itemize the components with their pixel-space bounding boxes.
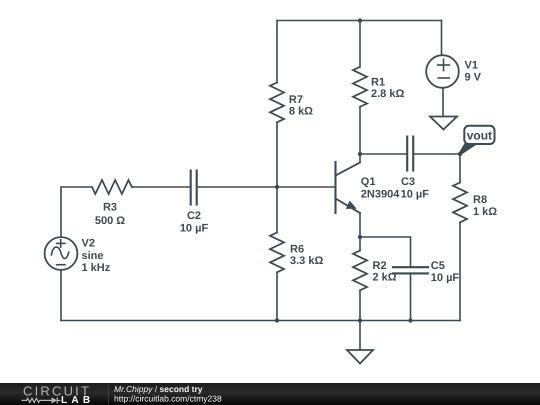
V1 value label — [465, 60, 482, 84]
ground at bottom center — [347, 350, 373, 364]
wire V2 bottom lead — [60, 270, 62, 321]
wire top rail from R7 top to V1 top — [277, 20, 442, 22]
Q1 value label — [361, 176, 400, 201]
svg-text:http://circuitlab.com/ctmy238: http://circuitlab.com/ctmy238 — [114, 393, 222, 403]
svg-text:8 kΩ: 8 kΩ — [289, 106, 313, 118]
junction dot bottom rail / C5 — [408, 318, 412, 322]
V2 value label — [82, 237, 111, 274]
resistor R6 top lead — [276, 187, 278, 233]
svg-text:R6: R6 — [290, 244, 304, 256]
resistor R7 — [270, 83, 284, 123]
svg-text:2 kΩ: 2 kΩ — [373, 272, 397, 284]
wire bottom rail — [61, 320, 460, 322]
node flag vout — [459, 126, 495, 156]
svg-text:2N3904: 2N3904 — [361, 189, 400, 201]
wire R2 bottom lead — [359, 290, 361, 320]
wire R3 to C2 — [132, 186, 191, 188]
svg-text:10 µF: 10 µF — [180, 222, 209, 234]
svg-text:1 kHz: 1 kHz — [82, 262, 111, 274]
svg-text:V2: V2 — [82, 237, 95, 249]
svg-text:sine: sine — [82, 250, 104, 262]
svg-text:2.8 kΩ: 2.8 kΩ — [371, 88, 404, 100]
junction dot bottom rail / ground — [358, 318, 362, 322]
svg-text:C5: C5 — [431, 260, 445, 272]
svg-text:R7: R7 — [289, 94, 303, 106]
svg-text:R3: R3 — [103, 202, 117, 214]
junction dot top rail / R1 — [358, 18, 362, 22]
R3 value label — [95, 202, 125, 227]
wire ground stem bottom — [359, 321, 361, 351]
wire Q1 collector lead — [359, 154, 361, 163]
svg-text:10 µF: 10 µF — [401, 189, 430, 201]
footer bar — [0, 383, 540, 405]
wire C2 to base (through node B) — [197, 186, 336, 188]
svg-text:Mr.Chippy / second try: Mr.Chippy / second try — [114, 384, 203, 394]
R7 value label — [289, 94, 313, 118]
svg-text:R1: R1 — [371, 77, 385, 89]
wire C3 to vout node — [413, 153, 460, 155]
wire Q1 emitter lead — [359, 213, 361, 237]
C3 value label — [401, 176, 430, 201]
resistor R2 — [353, 251, 367, 291]
svg-text:3.3 kΩ: 3.3 kΩ — [290, 255, 323, 267]
transistor Q1 — [336, 162, 361, 213]
junction dot node B (divider / base) — [275, 185, 279, 189]
svg-text:1 kΩ: 1 kΩ — [473, 206, 497, 218]
wire R6 bottom lead — [276, 272, 278, 320]
R2 value label — [373, 260, 397, 284]
capacitor C2 — [191, 171, 197, 205]
wire R7 bottom lead to node B — [276, 122, 278, 187]
R1 value label — [371, 77, 404, 100]
wire R7 top lead — [276, 21, 278, 83]
wire collector node to C3 — [360, 153, 407, 155]
svg-text:500 Ω: 500 Ω — [95, 215, 125, 227]
svg-text:V1: V1 — [465, 60, 478, 72]
C2 value label — [180, 210, 209, 234]
ground under V1 — [430, 117, 457, 130]
svg-text:C3: C3 — [401, 176, 415, 188]
wire R1 bottom lead to collector node — [359, 107, 361, 154]
wire R1 top lead — [359, 21, 361, 67]
svg-text:9 V: 9 V — [465, 72, 482, 84]
wire C5 bottom lead — [410, 273, 412, 320]
footer separator line — [108, 384, 110, 404]
svg-text:R8: R8 — [473, 194, 487, 206]
junction dot emitter / R2 / C5 — [358, 235, 362, 239]
junction dot collector / C3 — [358, 152, 362, 156]
logo resistor zigzag and diode — [22, 397, 61, 403]
svg-text:10 µF: 10 µF — [431, 272, 460, 284]
C5 value label — [431, 260, 460, 284]
capacitor C3 — [407, 137, 413, 171]
wire R8 bottom lead — [459, 222, 461, 320]
voltage source V1 — [426, 55, 459, 88]
wire emitter node to R2 — [359, 237, 361, 251]
svg-text:C2: C2 — [187, 210, 201, 222]
resistor R8 — [453, 183, 467, 223]
svg-text:Q1: Q1 — [361, 176, 376, 188]
capacitor C5 — [393, 267, 428, 273]
junction dot vout node — [458, 152, 462, 156]
wire left column top (V2 to R3 corner) — [61, 187, 92, 237]
R6 value label — [290, 244, 323, 268]
wire V1 bottom lead to ground — [442, 88, 444, 117]
resistor R3 — [92, 180, 132, 194]
wire emitter node to C5 — [360, 237, 411, 267]
svg-text:vout: vout — [467, 128, 492, 142]
junction dot bottom rail / R6 — [275, 318, 279, 322]
svg-text:LAB: LAB — [61, 395, 94, 405]
wire vout node to R8 — [459, 154, 461, 183]
wire V1 top lead — [441, 21, 443, 56]
voltage source V2 (sine) — [45, 237, 78, 270]
svg-text:R2: R2 — [373, 260, 387, 272]
resistor R1 — [353, 67, 367, 107]
resistor R6 — [270, 233, 284, 273]
R8 value label — [473, 194, 497, 218]
